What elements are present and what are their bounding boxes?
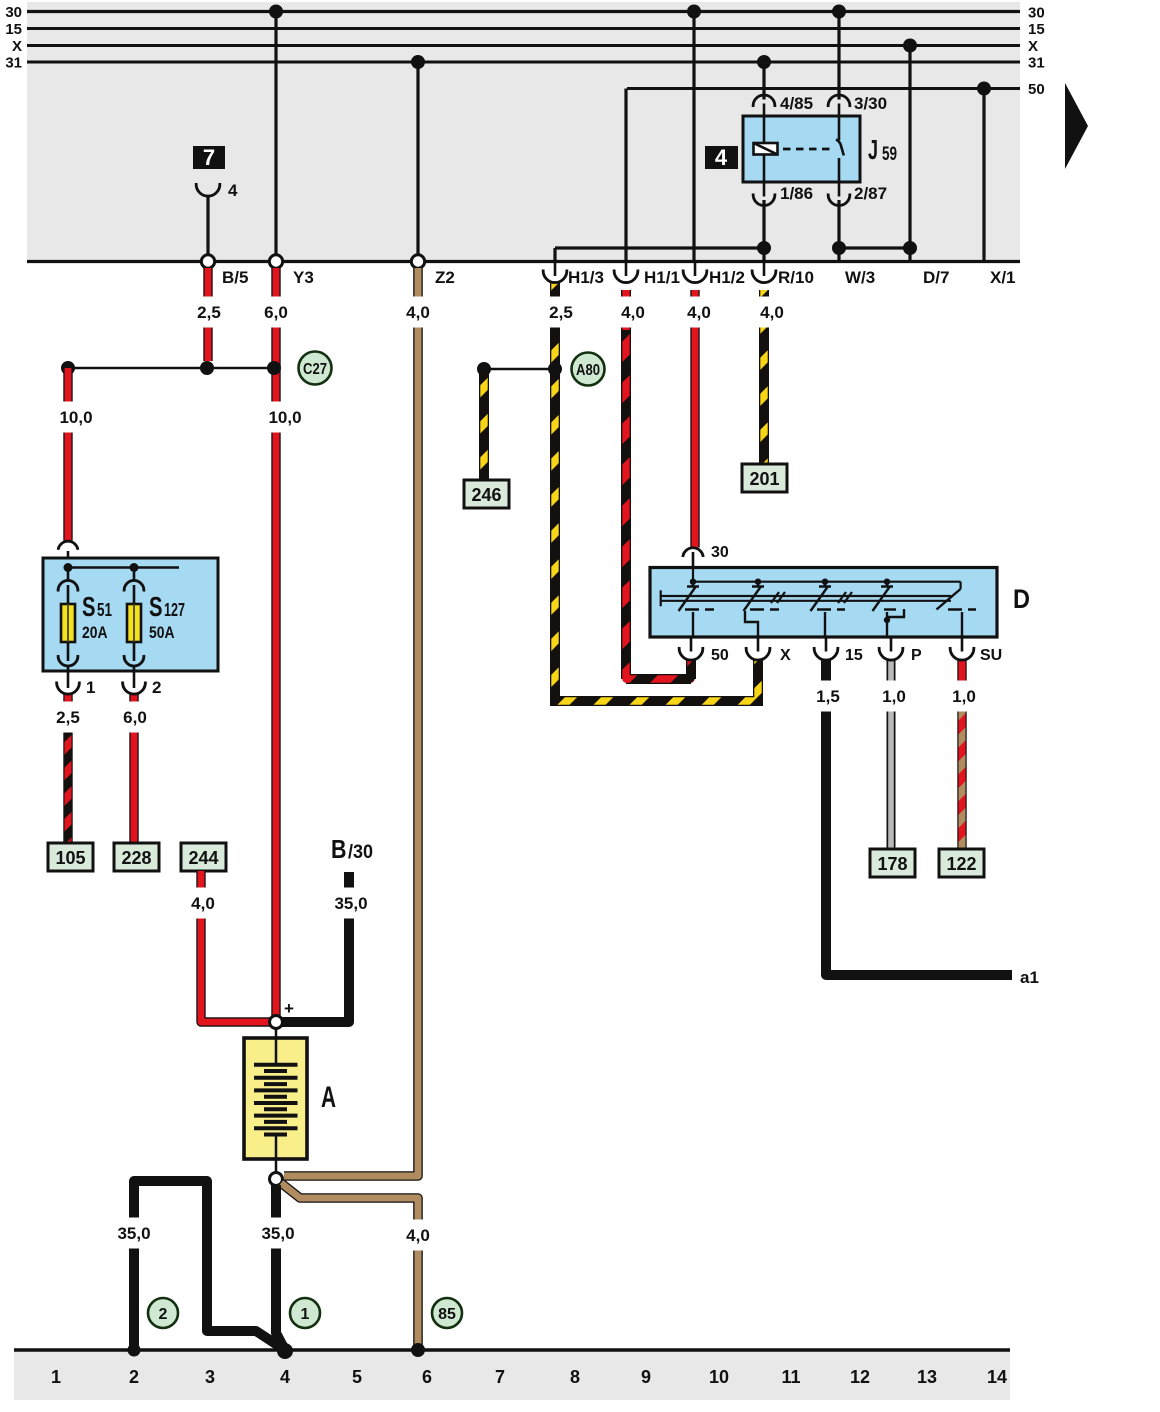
svg-text:J: J [868,134,878,165]
svg-text:4/85: 4/85 [780,94,813,113]
svg-text:4,0: 4,0 [406,303,430,322]
svg-text:1/86: 1/86 [780,184,813,203]
svg-text:35,0: 35,0 [117,1224,150,1243]
svg-text:7: 7 [203,145,215,170]
svg-text:P: P [911,647,922,664]
svg-text:246: 246 [471,485,501,505]
svg-text:a1: a1 [1020,968,1039,987]
svg-text:59: 59 [882,144,897,165]
svg-text:1: 1 [301,1306,310,1323]
svg-text:R/10: R/10 [778,268,814,287]
svg-text:1: 1 [51,1367,61,1387]
svg-text:B: B [331,834,347,864]
svg-text:8: 8 [570,1367,580,1387]
svg-text:6: 6 [422,1367,432,1387]
svg-text:X: X [780,647,791,664]
svg-text:20A: 20A [82,623,108,642]
svg-text:4,0: 4,0 [687,303,711,322]
svg-text:10: 10 [709,1367,729,1387]
svg-text:50: 50 [711,647,729,664]
svg-text:7: 7 [495,1367,505,1387]
svg-text:122: 122 [946,854,976,874]
svg-text:51: 51 [97,600,112,620]
svg-text:W/3: W/3 [845,268,875,287]
svg-text:30: 30 [711,544,729,561]
svg-text:201: 201 [749,469,779,489]
svg-text:10,0: 10,0 [268,408,301,427]
svg-text:50A: 50A [149,623,175,642]
svg-text:30: 30 [5,4,22,21]
svg-text:14: 14 [987,1367,1007,1387]
svg-text:4: 4 [228,181,238,200]
svg-text:Y3: Y3 [293,268,314,287]
svg-text:31: 31 [5,55,22,72]
svg-text:A80: A80 [576,362,600,379]
svg-text:+: + [284,999,294,1018]
svg-text:30: 30 [1028,5,1045,22]
svg-text:11: 11 [781,1367,800,1387]
svg-text:4: 4 [715,145,728,170]
svg-text:4: 4 [280,1367,290,1387]
svg-text:D: D [1013,584,1030,614]
svg-text:2/87: 2/87 [854,184,887,203]
svg-text:2,5: 2,5 [56,708,80,727]
svg-text:2: 2 [129,1367,139,1387]
svg-text:9: 9 [641,1367,651,1387]
svg-text:S: S [149,591,163,622]
svg-text:4,0: 4,0 [406,1226,430,1245]
svg-text:B/5: B/5 [222,268,248,287]
svg-text:D/7: D/7 [923,268,949,287]
svg-text:35,0: 35,0 [261,1224,294,1243]
svg-text:2: 2 [152,678,161,697]
svg-text:C27: C27 [303,361,327,378]
svg-text:1,0: 1,0 [952,687,976,706]
svg-text:4,0: 4,0 [760,303,784,322]
svg-text:13: 13 [917,1367,937,1387]
svg-text:A: A [321,1081,336,1114]
svg-text:228: 228 [121,848,151,868]
svg-text:2: 2 [159,1306,168,1323]
svg-text:31: 31 [1028,55,1045,72]
svg-text:4,0: 4,0 [191,894,215,913]
svg-text:127: 127 [164,600,185,620]
svg-text:3/30: 3/30 [854,94,887,113]
svg-text:15: 15 [1028,21,1045,38]
svg-text:1: 1 [86,678,95,697]
svg-text:SU: SU [980,647,1002,664]
svg-text:X: X [12,38,22,55]
svg-text:178: 178 [877,854,907,874]
svg-text:10,0: 10,0 [59,408,92,427]
svg-text:/30: /30 [348,842,373,863]
svg-text:15: 15 [5,21,22,38]
svg-text:85: 85 [438,1306,456,1323]
svg-text:1,0: 1,0 [882,687,906,706]
svg-text:15: 15 [845,647,863,664]
svg-text:6,0: 6,0 [123,708,147,727]
svg-text:3: 3 [205,1367,215,1387]
svg-text:6,0: 6,0 [264,303,288,322]
svg-text:2,5: 2,5 [197,303,221,322]
svg-text:H1/3: H1/3 [568,268,604,287]
svg-text:12: 12 [850,1367,870,1387]
svg-text:1,5: 1,5 [816,687,840,706]
svg-text:105: 105 [55,848,85,868]
svg-text:4,0: 4,0 [621,303,645,322]
svg-text:2,5: 2,5 [549,303,573,322]
svg-text:244: 244 [188,848,218,868]
svg-text:35,0: 35,0 [334,894,367,913]
svg-text:H1/2: H1/2 [709,268,745,287]
svg-text:H1/1: H1/1 [644,268,680,287]
svg-text:5: 5 [352,1367,362,1387]
svg-text:X/1: X/1 [990,268,1016,287]
svg-text:50: 50 [1028,81,1045,98]
svg-text:X: X [1028,38,1038,55]
svg-text:S: S [82,591,96,622]
svg-text:Z2: Z2 [435,268,455,287]
